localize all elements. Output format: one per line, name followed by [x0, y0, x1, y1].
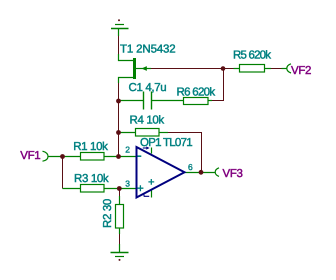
svg-text:T1 2N5432: T1 2N5432 — [120, 44, 176, 56]
svg-text:2: 2 — [125, 145, 130, 155]
svg-text:OP1 TL071: OP1 TL071 — [140, 137, 192, 149]
svg-text:VF1: VF1 — [20, 150, 40, 162]
svg-text:R6 620k: R6 620k — [177, 87, 216, 99]
svg-text:VF2: VF2 — [291, 65, 311, 77]
svg-text:R1 10k: R1 10k — [73, 141, 108, 153]
svg-text:R4 10k: R4 10k — [130, 115, 165, 127]
svg-text:R5 620k: R5 620k — [233, 50, 271, 62]
svg-text:C1 4,7u: C1 4,7u — [129, 82, 167, 94]
svg-text:VF3: VF3 — [223, 168, 243, 180]
svg-text:R3 10k: R3 10k — [74, 173, 109, 185]
svg-text:R2 30: R2 30 — [102, 199, 114, 228]
svg-text:6: 6 — [188, 162, 193, 172]
svg-text:3: 3 — [125, 178, 130, 188]
